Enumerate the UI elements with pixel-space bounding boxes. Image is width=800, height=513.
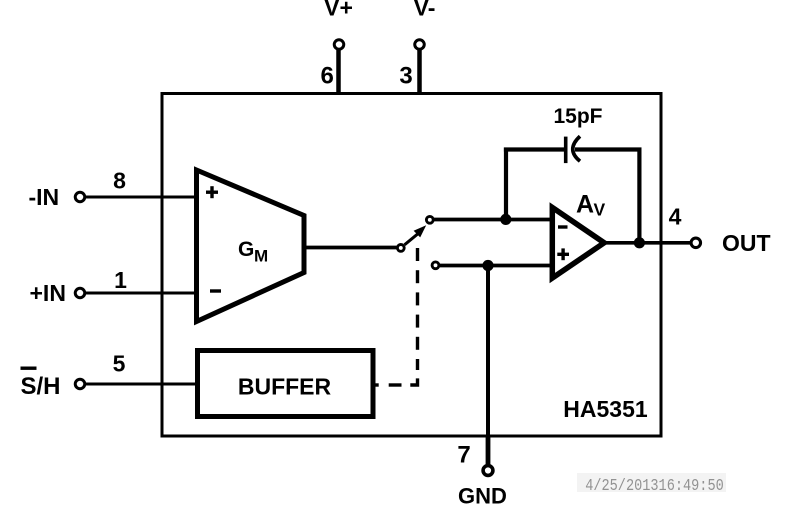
capacitor C1 15pF curved plate xyxy=(573,136,580,161)
switch blade with arrowhead xyxy=(405,225,427,245)
label AV xyxy=(576,191,606,220)
svg-text:+IN: +IN xyxy=(30,280,66,306)
capacitor C1 15pF left plate xyxy=(564,137,568,164)
svg-text:V: V xyxy=(594,200,606,220)
label -IN xyxy=(29,184,60,210)
wire S/H to BUFFER input xyxy=(85,383,198,386)
dashed control wire from BUFFER to switch xyxy=(375,248,417,385)
svg-text:G: G xyxy=(238,238,254,261)
feedback wire top right segment xyxy=(575,147,642,151)
pin number 1 xyxy=(114,267,127,293)
value label 15pF xyxy=(553,105,602,128)
svg-text:BUFFER: BUFFER xyxy=(238,374,332,400)
feedback wire top left segment xyxy=(504,147,564,151)
output wire from AV apex to OUT terminal xyxy=(604,241,691,245)
-IN terminal circle xyxy=(75,192,85,202)
junction node at GND tap xyxy=(482,260,493,271)
transconductance amp GM xyxy=(197,170,305,322)
switch lower throw circle xyxy=(432,262,439,269)
pin 3 terminal circle xyxy=(415,40,425,50)
pin number 3 xyxy=(399,63,412,90)
wire +IN to GM - input xyxy=(85,292,200,295)
timestamp watermark xyxy=(577,473,726,496)
pin number 8 xyxy=(113,168,126,194)
label V+ xyxy=(324,0,353,21)
svg-text:3: 3 xyxy=(399,63,412,90)
pin number 4 xyxy=(669,204,682,230)
GM - input sign xyxy=(210,289,221,292)
feedback wire up from inverting input xyxy=(504,148,508,220)
svg-text:6: 6 xyxy=(321,63,334,90)
label GND xyxy=(458,484,507,509)
wire lower throw to AV non-inverting input xyxy=(439,264,551,268)
svg-text:7: 7 xyxy=(457,442,470,469)
svg-text:S/H: S/H xyxy=(21,373,61,400)
label BUFFER xyxy=(238,374,332,400)
svg-text:15pF: 15pF xyxy=(553,105,602,128)
svg-text:4/25/201316:49:50: 4/25/201316:49:50 xyxy=(585,476,724,496)
label V- xyxy=(414,0,436,21)
svg-text:1: 1 xyxy=(114,267,127,293)
wire GM output to switch pole xyxy=(306,246,398,250)
part number label HA5351 xyxy=(563,396,648,422)
label S/H with overline xyxy=(21,367,61,401)
wire -IN to GM + input xyxy=(85,196,200,199)
pin 6 terminal circle xyxy=(334,40,344,50)
GND terminal circle xyxy=(483,466,493,476)
svg-text:8: 8 xyxy=(113,168,126,194)
svg-text:A: A xyxy=(576,191,594,219)
OUT terminal circle xyxy=(691,238,701,248)
GND wire down from non-inverting input node xyxy=(486,266,490,467)
switch pole circle xyxy=(397,245,404,252)
pin number 6 xyxy=(321,63,334,90)
svg-text:V-: V- xyxy=(414,0,436,21)
pin number 5 xyxy=(113,351,126,377)
pin 6 stub wire xyxy=(336,48,341,95)
label GM xyxy=(238,238,268,266)
svg-text:V+: V+ xyxy=(324,0,353,21)
svg-text:4: 4 xyxy=(669,204,682,230)
op-amp AV xyxy=(552,208,604,279)
S/H terminal circle xyxy=(75,379,85,389)
junction node at feedback takeoff xyxy=(500,214,511,225)
IC boundary box HA5351 xyxy=(162,94,661,437)
label OUT xyxy=(722,230,771,256)
wire upper throw to AV inverting input xyxy=(434,218,552,222)
svg-text:-IN: -IN xyxy=(29,184,60,210)
GM + input sign xyxy=(206,186,218,198)
BUFFER box xyxy=(198,351,374,417)
pin 3 stub wire xyxy=(417,48,422,95)
svg-text:OUT: OUT xyxy=(722,230,771,256)
pin number 7 xyxy=(457,442,470,469)
svg-text:5: 5 xyxy=(113,351,126,377)
svg-text:HA5351: HA5351 xyxy=(563,396,648,422)
svg-text:M: M xyxy=(254,247,268,266)
+IN terminal circle xyxy=(75,288,85,298)
feedback wire down to output xyxy=(637,148,641,243)
AV + input sign xyxy=(557,248,569,260)
AV - input sign xyxy=(558,225,568,228)
junction node at output xyxy=(634,237,645,248)
label +IN xyxy=(30,280,66,306)
switch upper throw circle xyxy=(426,216,433,223)
svg-text:GND: GND xyxy=(458,484,507,509)
